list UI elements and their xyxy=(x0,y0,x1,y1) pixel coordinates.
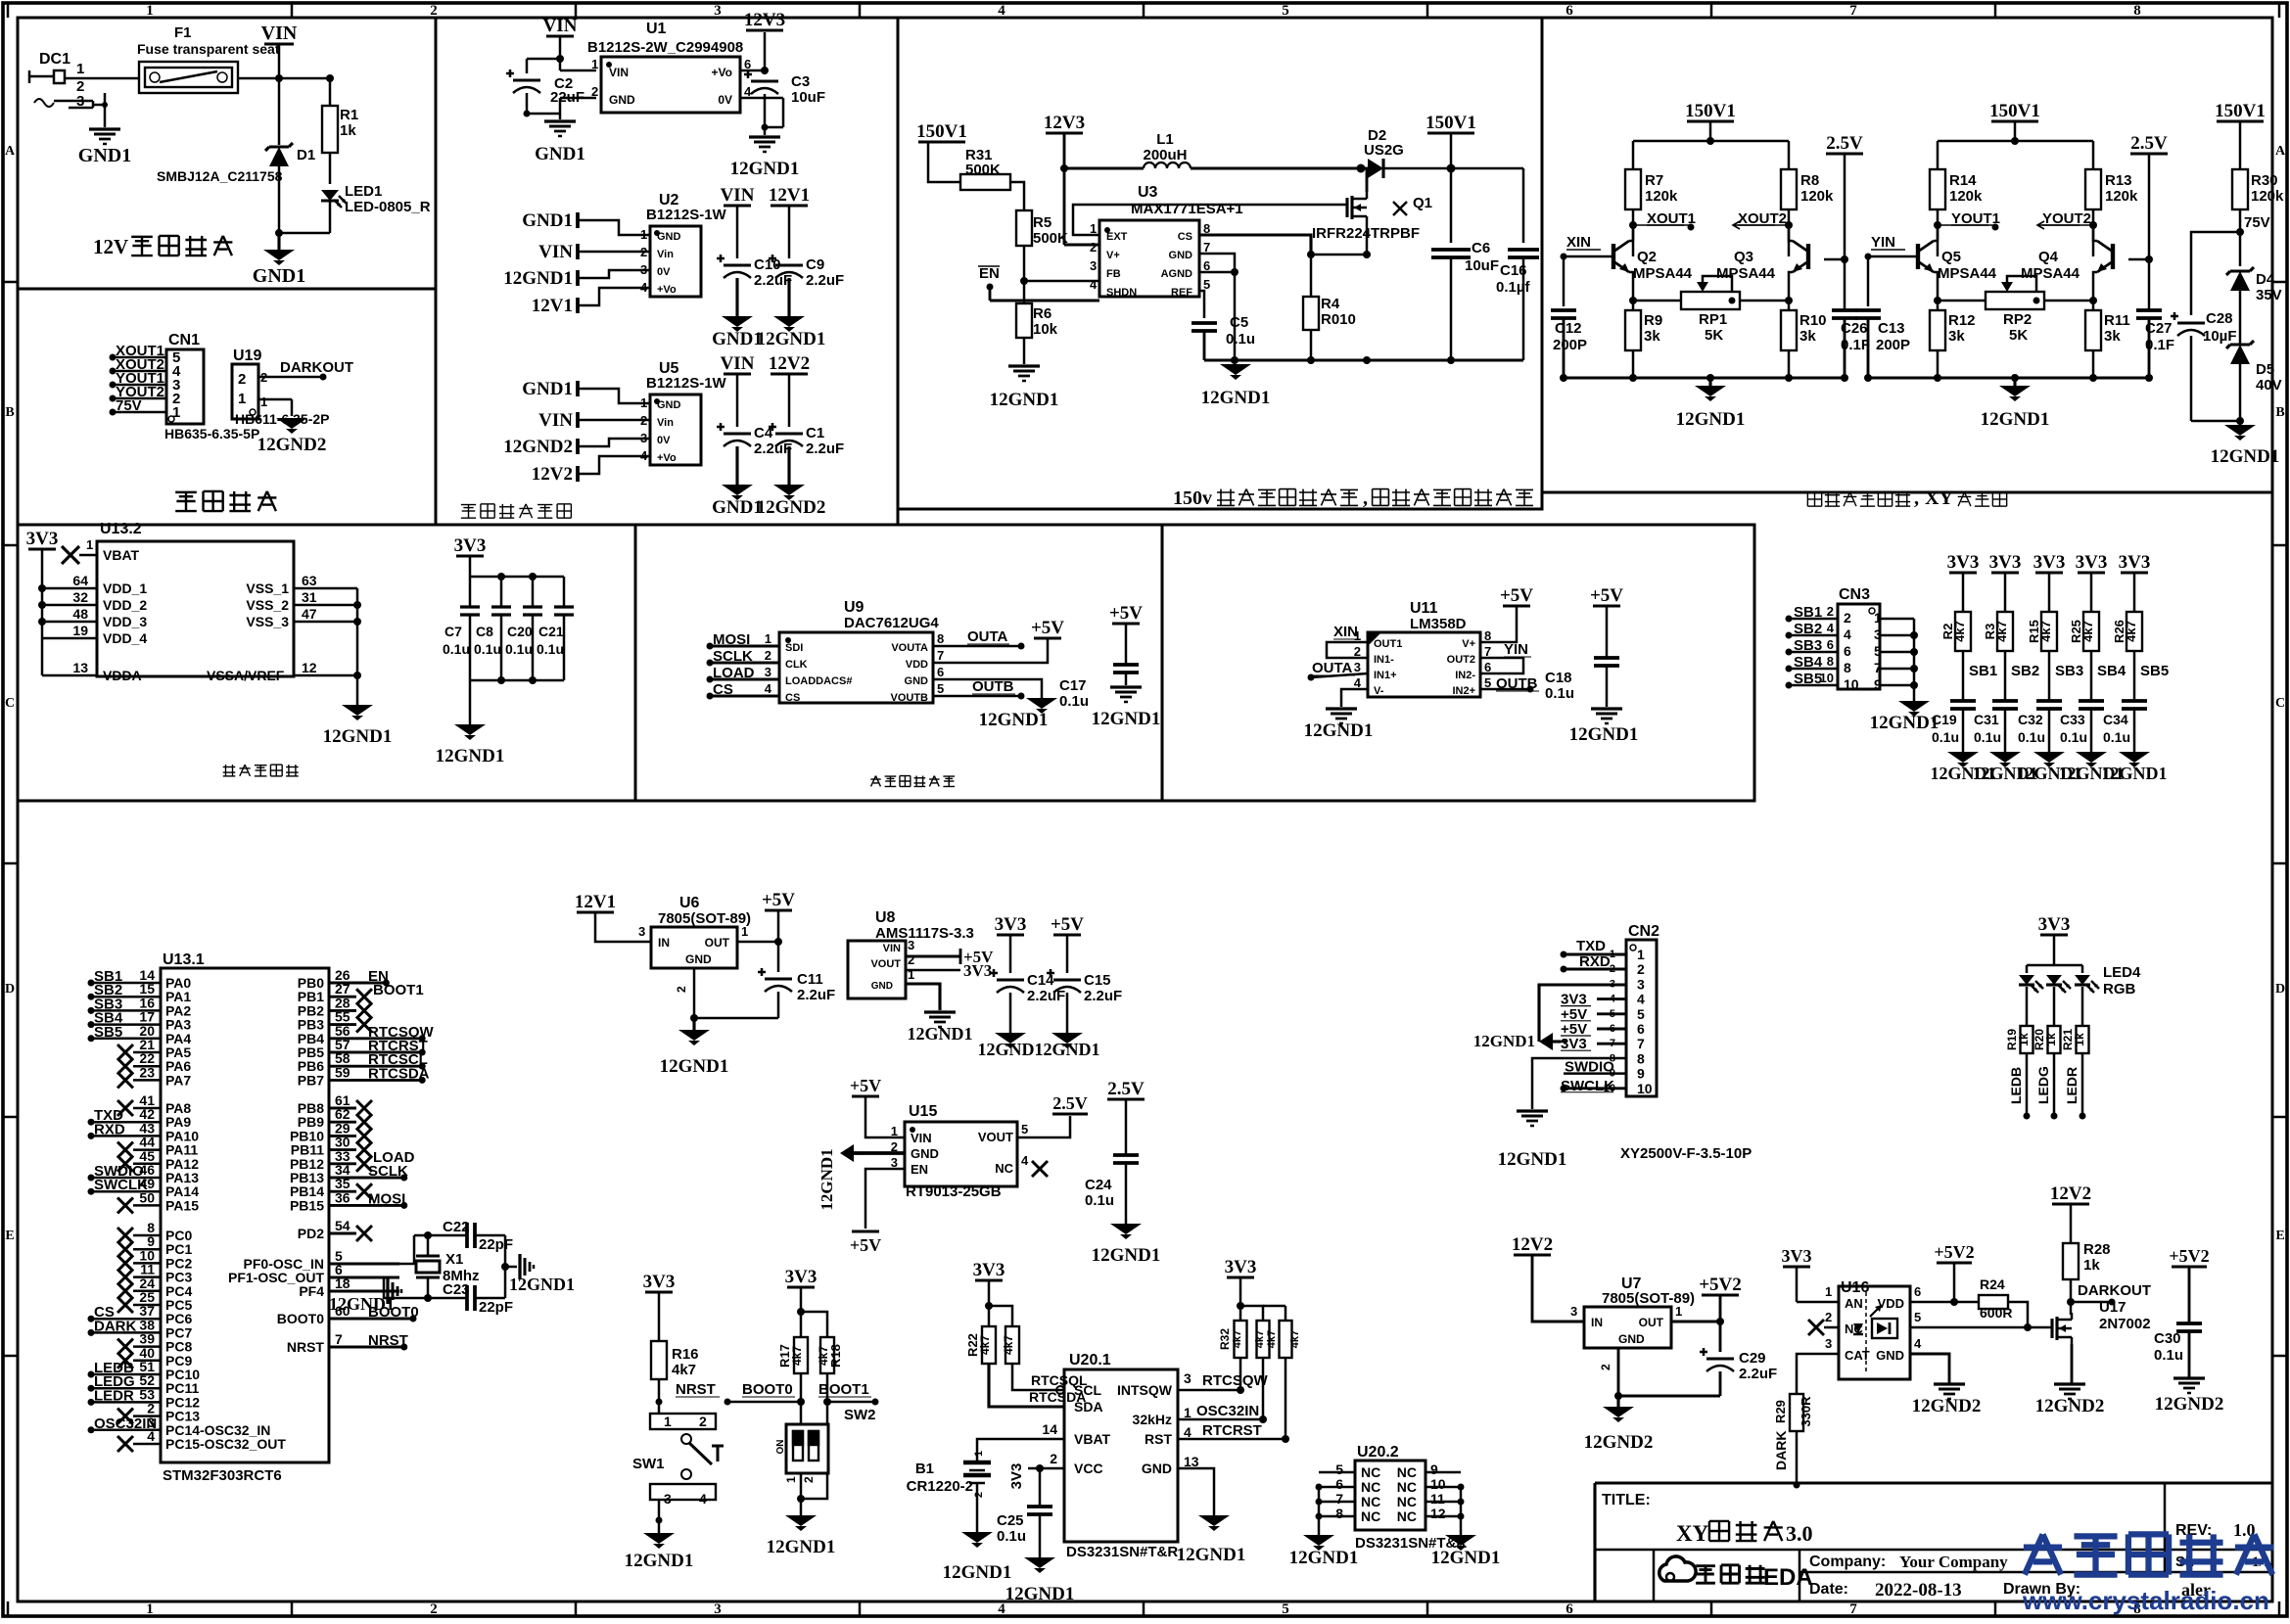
svg-text:32kHz: 32kHz xyxy=(1133,1412,1172,1427)
svg-text:AMS1117S-3.3: AMS1117S-3.3 xyxy=(875,925,974,942)
svg-text:GND: GND xyxy=(1169,250,1193,261)
svg-text:12GND1: 12GND1 xyxy=(978,1040,1044,1059)
svg-text:R4: R4 xyxy=(1321,296,1340,312)
svg-text:VDDA: VDDA xyxy=(103,668,142,683)
svg-text:3: 3 xyxy=(638,924,645,939)
svg-text:1: 1 xyxy=(1825,1284,1832,1299)
svg-text:CR1220-2: CR1220-2 xyxy=(907,1478,973,1495)
svg-text:R7: R7 xyxy=(1645,172,1663,189)
svg-text:2: 2 xyxy=(1844,610,1851,626)
svg-text:+5V: +5V xyxy=(850,1076,881,1095)
svg-text:0.1u: 0.1u xyxy=(2018,729,2045,745)
svg-text:R18: R18 xyxy=(828,1344,843,1368)
svg-text:12GND1: 12GND1 xyxy=(1981,409,2050,430)
svg-text:AN: AN xyxy=(1845,1296,1863,1311)
svg-text:GND: GND xyxy=(911,1146,939,1161)
svg-text:12V2: 12V2 xyxy=(532,464,573,485)
svg-text:RGB: RGB xyxy=(2103,981,2136,998)
svg-text:2.2uF: 2.2uF xyxy=(1084,988,1122,1004)
svg-text:C19: C19 xyxy=(1932,712,1957,727)
svg-text:Q2: Q2 xyxy=(1637,249,1657,265)
svg-text:C29: C29 xyxy=(1739,1350,1766,1367)
svg-text:200uH: 200uH xyxy=(1143,147,1187,163)
svg-text:40V: 40V xyxy=(2256,377,2282,394)
svg-text:4: 4 xyxy=(1021,1153,1029,1168)
svg-text:7805(SOT-89): 7805(SOT-89) xyxy=(658,910,751,927)
svg-text:2: 2 xyxy=(430,1601,438,1617)
svg-text:LOADDACS#: LOADDACS# xyxy=(785,675,852,687)
svg-text:NC: NC xyxy=(1397,1464,1417,1480)
svg-text:12V: 12V xyxy=(93,235,128,258)
svg-text:OUT: OUT xyxy=(705,936,730,950)
svg-text:12GND1: 12GND1 xyxy=(818,1148,836,1210)
svg-text:XIN: XIN xyxy=(1333,624,1358,640)
svg-text:SHDN: SHDN xyxy=(1106,287,1137,299)
svg-text:CS: CS xyxy=(1178,231,1192,243)
svg-text:31: 31 xyxy=(302,589,317,605)
svg-text:12GND1: 12GND1 xyxy=(943,1562,1012,1583)
svg-text:OUT2: OUT2 xyxy=(1447,654,1475,666)
svg-text:OSC32IN: OSC32IN xyxy=(1196,1403,1259,1419)
svg-text:4: 4 xyxy=(1827,621,1835,635)
svg-text:,: , xyxy=(1363,487,1368,509)
svg-text:R29: R29 xyxy=(1773,1400,1788,1423)
svg-text:2.5V: 2.5V xyxy=(2130,133,2168,154)
svg-text:2.2uF: 2.2uF xyxy=(754,272,792,289)
svg-text:C32: C32 xyxy=(2018,712,2043,727)
svg-text:75V: 75V xyxy=(116,397,142,414)
svg-text:SB1: SB1 xyxy=(1794,604,1822,621)
svg-text:2: 2 xyxy=(1637,961,1645,977)
svg-text:NC: NC xyxy=(1361,1464,1380,1480)
svg-text:GND: GND xyxy=(871,981,893,992)
svg-text:12GND1: 12GND1 xyxy=(1289,1548,1359,1568)
svg-text:R5: R5 xyxy=(1033,214,1052,231)
svg-text:EXT: EXT xyxy=(1106,231,1128,243)
svg-text:12V1: 12V1 xyxy=(532,296,573,316)
svg-text:PA7: PA7 xyxy=(165,1072,191,1088)
svg-text:4k7: 4k7 xyxy=(978,1335,992,1355)
svg-text:V-: V- xyxy=(1374,685,1384,697)
svg-text:U13.2: U13.2 xyxy=(100,521,142,537)
svg-text:2: 2 xyxy=(699,1414,707,1429)
svg-text:SB5: SB5 xyxy=(1794,671,1822,687)
svg-text:DARK: DARK xyxy=(94,1318,136,1334)
svg-text:C5: C5 xyxy=(1230,314,1248,331)
svg-text:1: 1 xyxy=(784,1476,798,1483)
svg-text:3V3: 3V3 xyxy=(26,529,59,549)
svg-text:C1: C1 xyxy=(806,425,824,441)
svg-text:U1: U1 xyxy=(646,21,667,37)
svg-text:+Vo: +Vo xyxy=(657,284,677,296)
svg-text:12V3: 12V3 xyxy=(744,10,785,30)
svg-text:3: 3 xyxy=(1090,258,1097,273)
svg-text:13: 13 xyxy=(1184,1454,1199,1469)
svg-text:3V3: 3V3 xyxy=(785,1267,818,1287)
svg-text:2: 2 xyxy=(973,1492,985,1498)
svg-text:VSS_3: VSS_3 xyxy=(246,614,289,629)
svg-text:C7: C7 xyxy=(444,624,462,639)
svg-text:VIN: VIN xyxy=(911,1131,932,1145)
svg-text:CN3: CN3 xyxy=(1839,586,1870,603)
svg-text:D4: D4 xyxy=(2256,271,2275,288)
svg-text:R11: R11 xyxy=(2104,312,2130,329)
svg-text:4k7: 4k7 xyxy=(1254,1330,1266,1348)
svg-text:OUTA: OUTA xyxy=(967,628,1008,645)
svg-text:R14: R14 xyxy=(1949,172,1977,189)
svg-text:BOOT1: BOOT1 xyxy=(818,1381,869,1398)
svg-text:5: 5 xyxy=(937,681,944,696)
svg-text:+5V2: +5V2 xyxy=(1699,1275,1742,1295)
svg-text:A: A xyxy=(5,144,16,159)
svg-text:0.1u: 0.1u xyxy=(443,641,470,657)
svg-text:2.2uF: 2.2uF xyxy=(1739,1366,1777,1382)
svg-text:120k: 120k xyxy=(1645,188,1678,205)
svg-text:MPSA44: MPSA44 xyxy=(1938,265,1997,282)
svg-text:5: 5 xyxy=(1021,1122,1028,1137)
svg-text:+Vo: +Vo xyxy=(712,66,732,79)
svg-text:SB3: SB3 xyxy=(2055,663,2083,679)
svg-text:V+: V+ xyxy=(1462,638,1475,650)
svg-text:2.2uF: 2.2uF xyxy=(806,441,844,457)
svg-text:VIN: VIN xyxy=(721,185,755,206)
svg-text:D1: D1 xyxy=(297,147,315,163)
svg-text:4: 4 xyxy=(147,1428,155,1444)
svg-text:MPSA44: MPSA44 xyxy=(1716,265,1776,282)
svg-text:A: A xyxy=(2275,144,2286,159)
svg-text:GND: GND xyxy=(1142,1461,1172,1476)
svg-text:50: 50 xyxy=(139,1189,155,1205)
svg-text:1: 1 xyxy=(664,1414,672,1429)
svg-text:2: 2 xyxy=(591,84,598,99)
svg-text:+5V: +5V xyxy=(762,890,795,910)
svg-text:4: 4 xyxy=(1844,626,1851,642)
svg-text:12GND1: 12GND1 xyxy=(730,159,800,179)
svg-text:150V1: 150V1 xyxy=(916,121,967,142)
svg-text:XIN: XIN xyxy=(1566,234,1591,251)
svg-text:B1: B1 xyxy=(915,1461,934,1477)
svg-text:2.5V: 2.5V xyxy=(1826,133,1863,154)
svg-text:IN: IN xyxy=(658,936,670,950)
svg-text:SWDIO: SWDIO xyxy=(1565,1059,1614,1076)
svg-text:D5: D5 xyxy=(2256,361,2274,378)
svg-text:MAX1771ESA+1: MAX1771ESA+1 xyxy=(1131,201,1243,217)
svg-text:BOOT0: BOOT0 xyxy=(742,1381,793,1398)
svg-text:Q5: Q5 xyxy=(1941,249,1961,265)
svg-text:RP1: RP1 xyxy=(1699,311,1727,328)
svg-text:4k7: 4k7 xyxy=(1994,621,2009,642)
svg-text:BOOT1: BOOT1 xyxy=(373,982,424,998)
svg-text:R28: R28 xyxy=(2083,1241,2111,1258)
svg-text:3V3: 3V3 xyxy=(2038,914,2071,935)
svg-text:SB1: SB1 xyxy=(1969,663,1997,679)
svg-text:12GND1: 12GND1 xyxy=(1005,1584,1075,1604)
svg-text:0.1u: 0.1u xyxy=(1226,331,1255,348)
svg-text:B: B xyxy=(2275,405,2284,420)
svg-text:5: 5 xyxy=(1637,1006,1645,1022)
svg-text:1: 1 xyxy=(973,1451,985,1457)
svg-text:U20.1: U20.1 xyxy=(1069,1352,1111,1369)
svg-text:59: 59 xyxy=(335,1064,351,1080)
svg-text:10: 10 xyxy=(1820,671,1834,685)
svg-text:IN2+: IN2+ xyxy=(1452,685,1475,697)
svg-text:12GND1: 12GND1 xyxy=(908,1024,973,1044)
svg-text:12GND1: 12GND1 xyxy=(323,726,393,747)
svg-text:DARKOUT: DARKOUT xyxy=(2078,1282,2151,1299)
svg-text:C3: C3 xyxy=(791,73,810,90)
svg-text:LEDB: LEDB xyxy=(2008,1067,2024,1104)
svg-text:6: 6 xyxy=(937,665,944,679)
svg-text:3: 3 xyxy=(1354,660,1361,674)
svg-text:4k7: 4k7 xyxy=(1266,1330,1278,1348)
svg-text:120k: 120k xyxy=(2105,188,2138,205)
svg-text:12GND1: 12GND1 xyxy=(2211,446,2280,467)
svg-text:+5V: +5V xyxy=(1031,618,1064,638)
svg-text:5: 5 xyxy=(1335,1462,1343,1477)
svg-text:C24: C24 xyxy=(1085,1177,1112,1193)
svg-text:HB635-6.35-5P: HB635-6.35-5P xyxy=(164,426,259,441)
svg-text:LEDR: LEDR xyxy=(2064,1067,2080,1104)
svg-text:U19: U19 xyxy=(233,348,261,364)
svg-text:2: 2 xyxy=(1090,240,1097,255)
svg-text:12GND1: 12GND1 xyxy=(1569,724,1639,745)
svg-text:600R: 600R xyxy=(1980,1305,2012,1321)
svg-text:5K: 5K xyxy=(2009,327,2028,344)
svg-text:OUTB: OUTB xyxy=(972,678,1014,695)
svg-text:EN: EN xyxy=(911,1162,928,1177)
svg-text:3: 3 xyxy=(1637,976,1645,992)
svg-text:4: 4 xyxy=(699,1491,707,1507)
svg-text:11: 11 xyxy=(1430,1491,1445,1507)
svg-text:+5V: +5V xyxy=(1109,603,1143,624)
svg-text:SCLK: SCLK xyxy=(713,648,753,665)
svg-text:23: 23 xyxy=(139,1064,155,1080)
svg-text:1: 1 xyxy=(76,61,84,77)
svg-text:9: 9 xyxy=(1637,1066,1645,1082)
svg-text:6: 6 xyxy=(1566,1601,1573,1617)
svg-text:6: 6 xyxy=(1844,643,1851,659)
svg-text:R010: R010 xyxy=(1321,311,1356,328)
svg-text:RST: RST xyxy=(1145,1431,1172,1447)
svg-text:RT9013-25GB: RT9013-25GB xyxy=(906,1183,1002,1200)
svg-text:4k7: 4k7 xyxy=(2080,621,2095,642)
svg-text:8: 8 xyxy=(1335,1506,1343,1521)
svg-text:200P: 200P xyxy=(1876,337,1910,353)
svg-text:D: D xyxy=(5,982,15,997)
svg-text:12GND1: 12GND1 xyxy=(1676,409,1746,430)
svg-text:12GND2: 12GND2 xyxy=(1584,1432,1654,1453)
svg-text:RXD: RXD xyxy=(1579,953,1611,970)
svg-text:3: 3 xyxy=(714,1601,722,1617)
svg-text:12GND1: 12GND1 xyxy=(436,746,505,766)
svg-text:C21: C21 xyxy=(538,624,564,639)
svg-text:36: 36 xyxy=(335,1189,351,1205)
svg-text:IRFR224TRPBF: IRFR224TRPBF xyxy=(1312,225,1420,242)
svg-text:MPSA44: MPSA44 xyxy=(2021,265,2080,282)
svg-text:DARK: DARK xyxy=(1773,1431,1789,1470)
svg-text:MOSI: MOSI xyxy=(368,1190,405,1207)
svg-text:VSS_1: VSS_1 xyxy=(246,580,289,596)
svg-text:7: 7 xyxy=(335,1331,343,1347)
svg-text:VDD_3: VDD_3 xyxy=(103,614,147,629)
svg-text:12GND1: 12GND1 xyxy=(1092,709,1161,729)
svg-text:0V: 0V xyxy=(718,93,732,107)
svg-text:C10: C10 xyxy=(754,256,781,273)
svg-text:6: 6 xyxy=(1637,1021,1645,1037)
svg-text:12: 12 xyxy=(302,660,317,675)
svg-text:1: 1 xyxy=(238,391,246,407)
svg-text:4: 4 xyxy=(1184,1424,1192,1440)
svg-text:12V1: 12V1 xyxy=(575,892,616,912)
svg-text:LED1: LED1 xyxy=(345,183,382,200)
svg-text:DC1: DC1 xyxy=(39,51,70,68)
svg-text:R24: R24 xyxy=(1980,1276,2005,1292)
svg-text:C25: C25 xyxy=(997,1512,1024,1529)
svg-text:4k7: 4k7 xyxy=(1002,1335,1015,1355)
svg-text:Fuse transparent seat: Fuse transparent seat xyxy=(137,41,280,57)
svg-text:XY2500V-F-3.5-10P: XY2500V-F-3.5-10P xyxy=(1620,1145,1752,1162)
svg-text:C28: C28 xyxy=(2206,310,2233,327)
svg-text:0.1u: 0.1u xyxy=(1085,1192,1114,1209)
svg-text:B: B xyxy=(5,405,14,420)
svg-text:C: C xyxy=(5,696,15,711)
svg-text:SB5: SB5 xyxy=(94,1024,122,1041)
svg-text:0.1u: 0.1u xyxy=(1545,685,1574,702)
svg-text:1k: 1k xyxy=(340,122,356,139)
svg-text:12GND2: 12GND2 xyxy=(1912,1396,1982,1416)
svg-text:R6: R6 xyxy=(1033,305,1052,322)
svg-text:L1: L1 xyxy=(1156,131,1174,148)
svg-text:12GND1: 12GND1 xyxy=(1201,388,1271,408)
svg-text:NRST: NRST xyxy=(287,1339,325,1355)
svg-text:150v: 150v xyxy=(1173,487,1212,509)
svg-text:10µF: 10µF xyxy=(2203,328,2237,345)
svg-text:200P: 200P xyxy=(1553,337,1587,353)
svg-text:2: 2 xyxy=(1599,1364,1612,1370)
svg-text:GND1: GND1 xyxy=(522,379,573,399)
svg-text:U20.2: U20.2 xyxy=(1357,1444,1399,1461)
svg-text:10: 10 xyxy=(1844,676,1859,692)
svg-text:RTCRST: RTCRST xyxy=(1202,1422,1262,1439)
svg-text:2.2uF: 2.2uF xyxy=(754,441,792,457)
svg-text:LOAD: LOAD xyxy=(713,665,755,681)
svg-text:12GND1: 12GND1 xyxy=(1092,1245,1161,1266)
svg-text:VDD_4: VDD_4 xyxy=(103,630,147,646)
svg-text:3V3: 3V3 xyxy=(2033,552,2066,573)
svg-text:+5V2: +5V2 xyxy=(1934,1242,1974,1262)
svg-text:1: 1 xyxy=(86,537,93,552)
svg-text:12GND1: 12GND1 xyxy=(2102,764,2168,783)
svg-text:10: 10 xyxy=(1637,1081,1653,1096)
svg-text:6: 6 xyxy=(1335,1476,1343,1492)
svg-text:XY: XY xyxy=(1676,1521,1709,1546)
svg-text:12GND2: 12GND2 xyxy=(257,435,327,455)
svg-text:DS3231SN#T&R: DS3231SN#T&R xyxy=(1066,1544,1178,1560)
svg-text:2: 2 xyxy=(908,952,914,967)
svg-text:22pF: 22pF xyxy=(479,1299,513,1316)
svg-text:U8: U8 xyxy=(875,909,896,926)
svg-text:3V3: 3V3 xyxy=(1947,552,1980,573)
svg-text:6: 6 xyxy=(1827,637,1834,652)
svg-text:3: 3 xyxy=(1184,1370,1192,1386)
svg-text:TITLE:: TITLE: xyxy=(1602,1492,1651,1508)
svg-text:NC: NC xyxy=(1397,1508,1417,1524)
svg-text:12V2: 12V2 xyxy=(2050,1183,2091,1204)
svg-text:2: 2 xyxy=(1050,1451,1057,1466)
svg-text:VDD_1: VDD_1 xyxy=(103,580,147,596)
svg-text:GND: GND xyxy=(657,399,681,411)
svg-text:1: 1 xyxy=(591,57,598,71)
svg-text:1: 1 xyxy=(891,1124,898,1138)
svg-text:4k7: 4k7 xyxy=(1232,1330,1243,1348)
svg-text:SB2: SB2 xyxy=(2011,663,2039,679)
svg-text:GND: GND xyxy=(1618,1332,1645,1346)
svg-text:MOSI: MOSI xyxy=(713,631,750,648)
svg-text:SW1: SW1 xyxy=(632,1456,665,1472)
svg-text:E: E xyxy=(2275,1229,2284,1243)
svg-text:VOUTA: VOUTA xyxy=(891,642,928,654)
svg-text:C31: C31 xyxy=(1974,712,1999,727)
svg-text:MPSA44: MPSA44 xyxy=(1633,265,1693,282)
svg-text:0.1µf: 0.1µf xyxy=(1496,279,1530,296)
svg-text:PF4: PF4 xyxy=(299,1283,324,1299)
svg-text:SB3: SB3 xyxy=(1794,637,1822,654)
svg-text:7: 7 xyxy=(937,648,944,663)
svg-text:C4: C4 xyxy=(754,425,773,441)
svg-text:2.5V: 2.5V xyxy=(1107,1079,1145,1099)
svg-text:9: 9 xyxy=(1430,1462,1438,1477)
svg-text:1: 1 xyxy=(260,394,267,409)
svg-text:2: 2 xyxy=(675,986,688,993)
svg-text:6: 6 xyxy=(1914,1284,1921,1299)
svg-text:5: 5 xyxy=(1914,1310,1921,1324)
svg-text:YIN: YIN xyxy=(1504,641,1528,658)
svg-text:3V3: 3V3 xyxy=(973,1260,1005,1280)
svg-text:GND: GND xyxy=(657,231,681,243)
svg-text:REF: REF xyxy=(1171,287,1192,299)
svg-text:GND: GND xyxy=(905,675,929,687)
svg-text:4k7: 4k7 xyxy=(790,1346,804,1366)
svg-text:0.1u: 0.1u xyxy=(997,1528,1026,1545)
svg-text:+Vo: +Vo xyxy=(657,452,677,464)
svg-text:Vin: Vin xyxy=(657,249,674,260)
svg-text:2.2uF: 2.2uF xyxy=(1027,988,1065,1004)
svg-text:VBAT: VBAT xyxy=(103,547,140,563)
svg-text:NC: NC xyxy=(995,1161,1013,1176)
svg-text:0.1u: 0.1u xyxy=(1932,729,1959,745)
svg-text:R8: R8 xyxy=(1800,172,1819,189)
svg-text:VOUT: VOUT xyxy=(870,958,901,970)
svg-text:0V: 0V xyxy=(657,435,671,446)
svg-text:INTSQW: INTSQW xyxy=(1117,1382,1173,1398)
svg-text:GND1: GND1 xyxy=(712,329,763,349)
svg-text:12GND1: 12GND1 xyxy=(1177,1545,1246,1565)
svg-text:12GND1: 12GND1 xyxy=(1304,720,1374,741)
svg-text:12V2: 12V2 xyxy=(1512,1234,1553,1255)
svg-text:E: E xyxy=(5,1229,14,1243)
svg-text:0.1u: 0.1u xyxy=(2060,729,2087,745)
svg-text:BOOT0: BOOT0 xyxy=(277,1311,324,1326)
svg-text:12GND1: 12GND1 xyxy=(329,1294,395,1314)
svg-text:0.1u: 0.1u xyxy=(1974,729,2001,745)
svg-text:NC: NC xyxy=(1397,1494,1417,1509)
svg-text:PD2: PD2 xyxy=(298,1226,324,1241)
svg-text:+5V: +5V xyxy=(850,1235,881,1255)
svg-text:120k: 120k xyxy=(1800,188,1834,205)
svg-text:LED4: LED4 xyxy=(2103,964,2141,981)
svg-text:3V3: 3V3 xyxy=(454,535,487,556)
svg-text:XY: XY xyxy=(1925,487,1953,509)
